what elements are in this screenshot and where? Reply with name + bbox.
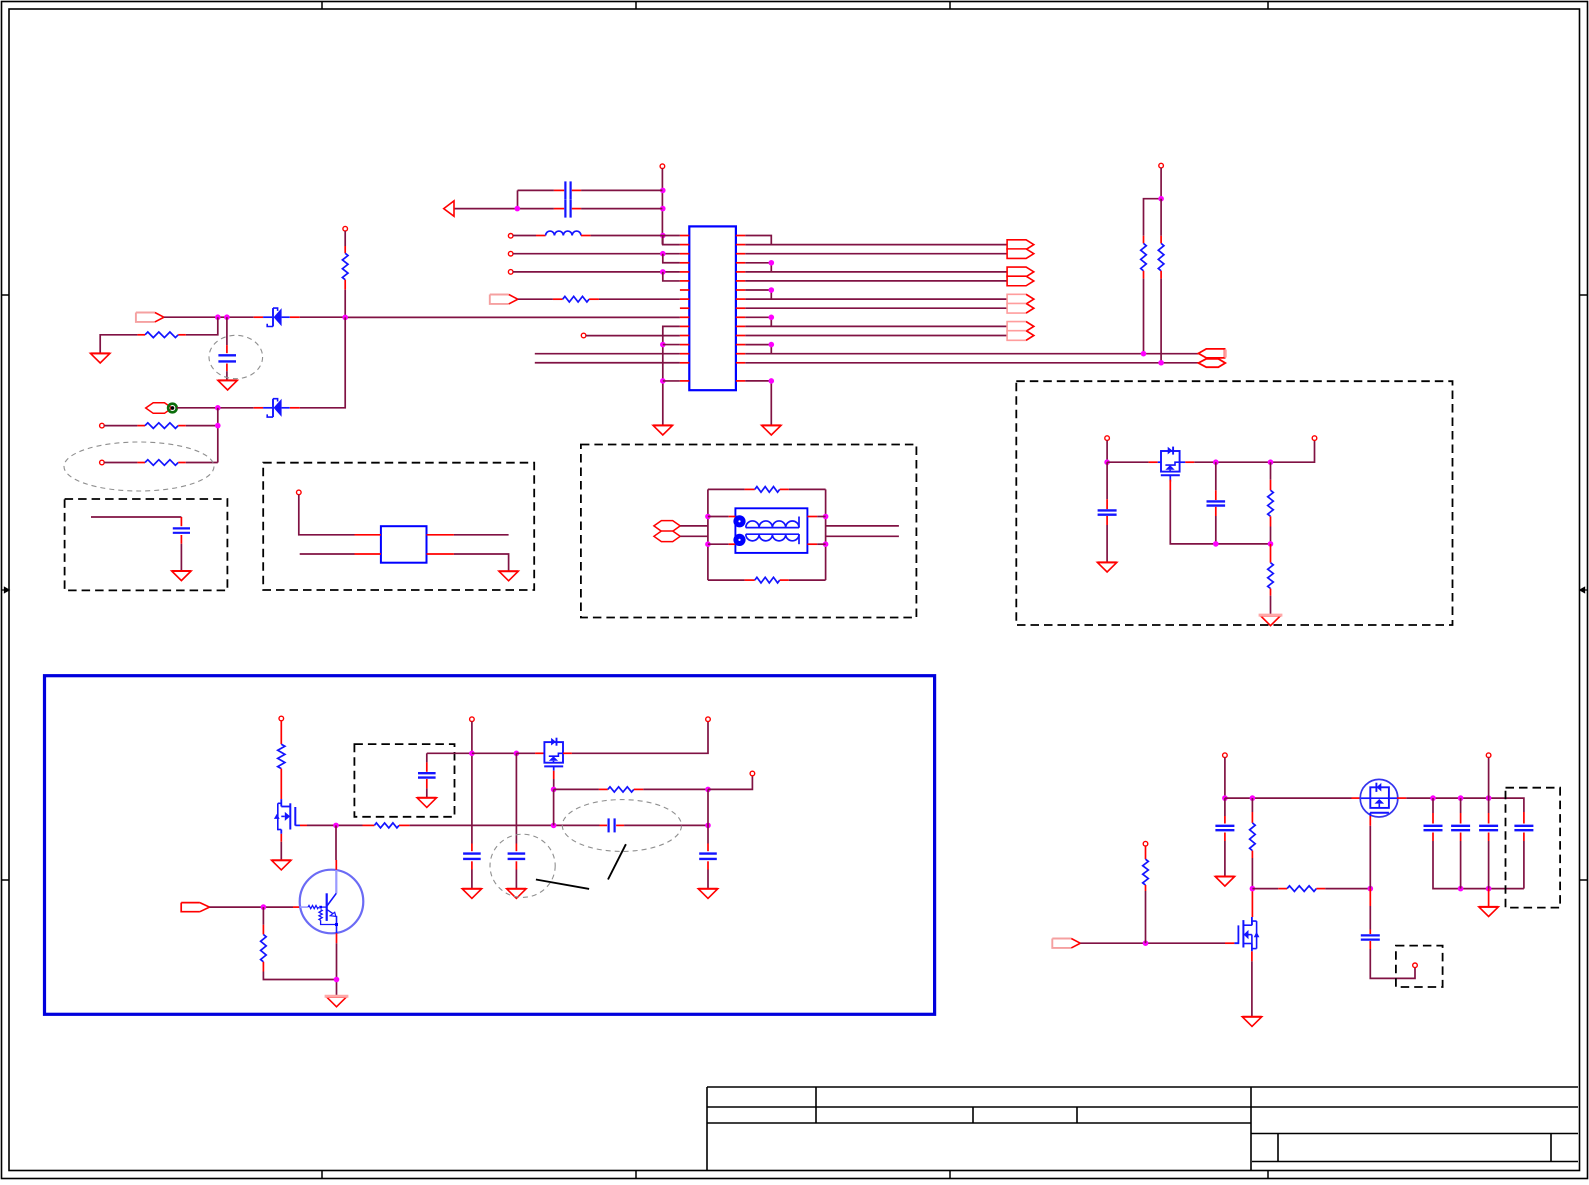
node - circle C [750,771,755,776]
capacitor C17 [1523,812,1525,824]
wire - Q3 right to cap bank [1389,797,1397,799]
capacitor C15 [1460,798,1462,813]
wire - left bus pins 11/13/17 to ground [663,326,680,425]
ground GND8 pink [1261,616,1280,626]
resistor R3 [1143,236,1145,244]
transformer T5 windings [746,527,799,529]
capacitor C4 with stub wire [91,516,181,518]
node - circle D [1223,753,1228,758]
port T3 lens pair [654,521,680,532]
wire - gate row dots [1213,541,1219,547]
ic U1 right pin stubs [736,236,745,381]
resistor R19 row [1252,888,1278,890]
wire - main net continues [410,824,600,826]
node - circle B [706,717,711,722]
capacitor C10 [515,844,517,852]
node - circle top of R17 [1143,841,1148,846]
wire - pin2 feed [663,236,680,245]
mosfet U3 [544,742,563,763]
wire - FL1 bottom row [300,553,355,555]
wire - right bus pairs to output arrows [745,236,1198,426]
wire - gate to main net [553,789,555,825]
region dashed box 6 [1396,946,1443,987]
transformer T5 box [735,508,807,553]
ic U1 left pin stubs [680,236,689,381]
wire - FL1 pin2 out [454,534,509,536]
node - circle input of filter FL1 [297,490,302,495]
wire - split to R3 [1144,199,1162,236]
wire - Q4 source to ground [1251,951,1253,961]
diode D1 schottky [254,316,264,318]
resistor R9 top [708,488,745,490]
wire - long inputs pins 14/15 [535,353,680,355]
resistor R17 [1145,846,1147,859]
region dashed box 1 [65,499,228,590]
ic U1 [689,226,736,390]
region highlight blue box [45,676,935,1015]
wire - series cap to right node [624,824,708,826]
port P4 lens tag with indicator [146,403,172,414]
resistor R15 [554,788,599,790]
wire - P6 to Q4 gate [1080,942,1225,944]
annotation ellipse around R8 [64,442,214,491]
capacitor C2 [454,208,554,210]
ground GND5 [172,571,191,581]
resistor R4 [1160,199,1162,236]
resistor R18 [1251,798,1253,812]
resistor R11 [1270,462,1272,480]
ground GND15 [1242,1017,1261,1027]
region dashed box 2 [263,463,534,590]
capacitor C16 [1488,798,1490,813]
wire - long net from diode node to pin 10 [345,316,680,318]
wire - Q2 collector to main net [335,825,337,860]
wire - lens taps to left bus [680,525,708,527]
wire - P3 to diode D1 [164,316,254,318]
ground GND7 [1097,562,1116,572]
wire - Q4 drain feed [1251,889,1253,917]
mosfet Q1 [280,799,282,806]
node IN2 - circle and wire to pins 3/4 [508,251,513,256]
filter FL1 box [381,526,427,563]
annotation ellipse around C3 [209,335,263,378]
resistor R7 [100,423,105,428]
capacitor C11 [707,844,709,852]
port T2 tag [1198,359,1225,367]
ground GND17 [1479,907,1498,917]
port T4 lens [654,531,680,542]
ground GND13 [698,889,717,899]
wire - P4 to diode D2 [177,407,254,409]
wire - main gate net horizontal [300,824,307,826]
resistor R14 [363,824,375,826]
node - circle A feed [470,717,475,722]
port A3 output arrow [1007,267,1034,277]
wire - rail to Q3 [1225,797,1352,799]
capacitor C6 [1215,462,1217,490]
capacitor C14 [1432,798,1434,813]
capacitor C5 [1106,462,1108,499]
wire - P5 to base [210,906,294,908]
mosfet Q4 [1225,942,1234,944]
region dashed box 3 [581,445,917,618]
ground GND14 pink [327,997,346,1007]
ground GND1 below IC left [653,425,672,435]
port P6 tag [1052,939,1071,948]
port A8 output arrow [1007,331,1034,341]
wire - VDD drop to IC pin rows [661,169,663,245]
wire - circle F drop [1488,758,1490,799]
node - circle VOUT of box4 [1312,436,1317,441]
wire - left bus vertical [707,489,709,580]
port A4 output arrow [1007,276,1034,286]
ground GND3 [91,353,110,363]
resistor R10 bottom [708,579,745,581]
port A6 output arrow [1007,303,1034,313]
wire - U3 right to circle B [563,752,572,754]
ground GND12 [507,889,526,899]
wire - U3 gate down [553,771,555,779]
ground GND16 [1215,877,1234,887]
wire - Q3 gate-source column [1369,816,1371,826]
capacitor C13 series [1369,889,1371,906]
node - circle top of R13 [279,716,284,721]
wire - R4 down to net row 15 [1160,279,1162,363]
ground GND10 [417,798,436,808]
annotation leader line 2 [608,844,626,879]
capacitor C7 series [600,824,608,826]
port T1 tag [1198,349,1224,358]
wire - circle D to rail [1224,758,1226,799]
diode D2 schottky [254,407,264,409]
resistor R6 pullup at node A [343,226,348,231]
node - circle E [1413,963,1418,968]
resistor R12 [1270,544,1272,563]
resistor R16 [262,907,264,925]
junction dots on VDD vertical [660,188,666,194]
annotation ellipse small [490,834,555,897]
mosfet U2 [1158,461,1161,463]
port A5 output arrow [1007,294,1034,304]
ground GND11 [462,889,481,899]
port P1 input arrow left [444,201,454,216]
region dashed box 5 [1506,788,1561,908]
wire - column B from U3 left [472,752,517,754]
node - circle VIN of box4 [1105,436,1110,441]
wire - rail to U2 [1107,461,1149,463]
wire - into FL1 pin1 [299,495,355,535]
junction dots right bus [769,260,775,266]
wire - U2 source out [1180,461,1186,463]
wire - Q1 source to ground [280,834,282,842]
region dashed box inside blue box [354,744,454,817]
node - circle F [1486,753,1491,758]
capacitor C9 [471,844,473,852]
wire - node A vertical [344,290,346,318]
transistor Q2 BRT [300,870,364,934]
port A1 output arrow [1007,240,1034,250]
capacitor C3 [226,317,228,345]
ground GND4 [218,380,237,390]
wire - column C down [707,789,709,843]
transformer T5 pins [708,516,729,518]
node IN4 - circle to pin 12 [581,333,586,338]
wire - column A [471,722,473,844]
ground GND6 [499,571,518,581]
node IN3 - circle and wire to pins 5/6 [508,270,513,275]
wire - left bus of D2 rows [217,408,219,463]
capacitor C12 [1224,798,1226,816]
wire - R3 down to net row 14 [1143,279,1145,354]
wire - D1 to node A [300,316,345,318]
port A2 output arrow [1007,249,1034,259]
ground GND2 below IC right [762,425,781,435]
port P3 tag [136,313,155,322]
capacitor C8 [427,752,472,754]
wire - outputs right [826,525,899,527]
resistor R8 [100,460,105,465]
port P5 tag to Q2 base [181,903,200,912]
wire - C1/C2 left join [517,190,519,208]
port P2 tag with resistor R2 to pin 8 [490,295,509,304]
wire - U3 left pin [516,752,535,754]
wire - to circle C [708,776,752,790]
wire - down to rail [1106,440,1108,462]
mosfet Q3 circled [1352,797,1361,799]
wire - Q2 emitter to ground row [336,933,338,943]
resistor R13 [280,721,282,744]
indicator - green circle [168,404,177,413]
wire - bank ground stem [1488,889,1490,907]
region dashed box 4 [1016,381,1452,625]
annotation ellipse big [562,800,681,852]
inductor L1 [508,234,513,239]
ground GND9 [272,860,291,870]
port A7 output arrow [1007,322,1034,332]
node VDD tie - no-connect circle top of C1/C2 [660,164,665,169]
wire - right bus vertical [825,489,827,580]
annotation leader line 1 [536,880,589,889]
node VCC - circle feeding R3/R4 [1159,163,1164,168]
resistor R5 [186,317,218,335]
mosfet U2 gate net [1169,480,1171,482]
capacitor C1 [518,189,554,191]
